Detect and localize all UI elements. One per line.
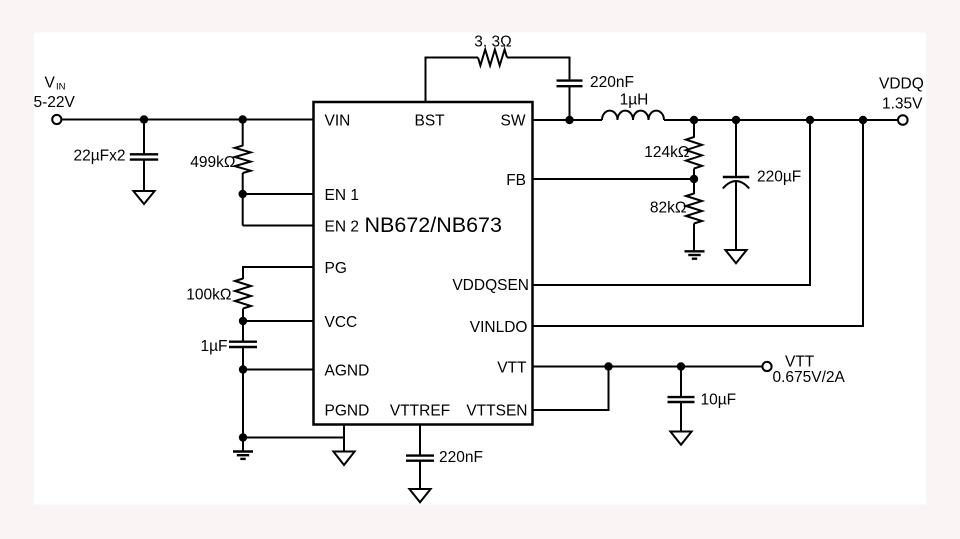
wire VTTSEN loop xyxy=(533,367,609,411)
wire VTTREF cap to ground xyxy=(419,461,421,489)
wire VCC to C-vcc xyxy=(242,321,244,342)
wire FB xyxy=(533,178,695,180)
svg-text:220nF: 220nF xyxy=(439,449,483,466)
junction dot VIN/R-EN xyxy=(239,115,247,123)
wire VCC xyxy=(243,320,314,322)
svg-text:499kΩ: 499kΩ xyxy=(190,154,235,171)
wire BST cap to SW xyxy=(569,86,571,120)
resistor 3.3Ohm xyxy=(478,50,507,66)
svg-text:22µFx2: 22µFx2 xyxy=(73,148,125,165)
wire C-vtt stem xyxy=(680,367,682,398)
pin label SW xyxy=(501,113,526,130)
svg-text:AGND: AGND xyxy=(325,363,370,380)
junction dot rail/C-out xyxy=(732,116,740,124)
wire C-out to ground xyxy=(735,181,737,250)
pin label VDDQSEN xyxy=(452,277,529,294)
svg-text:EN 1: EN 1 xyxy=(325,187,359,204)
wire VDDQSEN xyxy=(533,120,811,285)
terminal VDDQ output xyxy=(898,115,908,125)
wire R124k bottom stem xyxy=(693,169,695,180)
svg-text:1.35V: 1.35V xyxy=(882,96,923,113)
wire VIN rail xyxy=(61,119,313,121)
wire VDDQ rail xyxy=(664,119,898,121)
label 3.3Ohm xyxy=(474,34,511,51)
resistor 82kOhm xyxy=(686,194,702,224)
wire R-EN top stem xyxy=(242,120,244,147)
svg-text:VDDQ: VDDQ xyxy=(879,76,924,93)
wire R82k top stem xyxy=(693,179,695,194)
capacitor 22uFx2 xyxy=(130,154,158,159)
svg-text:124kΩ: 124kΩ xyxy=(644,144,689,161)
pin label EN 2 xyxy=(325,219,359,236)
wire C-out stem xyxy=(735,120,737,177)
pin label VCC xyxy=(325,314,358,331)
resistor 499kOhm xyxy=(235,146,251,173)
svg-text:1µH: 1µH xyxy=(620,92,649,109)
junction dot ground node xyxy=(239,433,247,441)
wire VINLDO xyxy=(533,120,864,326)
label 5-22V xyxy=(34,94,76,111)
svg-text:SW: SW xyxy=(501,113,526,130)
label 220nF (BST) xyxy=(590,74,634,91)
svg-text:220nF: 220nF xyxy=(590,74,634,91)
capacitor 220nF (BST) xyxy=(557,81,583,87)
ground (triangle) C-out xyxy=(725,250,746,263)
label 82kOhm xyxy=(650,200,687,217)
ground (triangle) C-vtt xyxy=(670,432,691,445)
junction dot VIN/C-in xyxy=(140,115,148,123)
IC U1 label NB672/NB673 xyxy=(365,213,502,237)
pin label VTT xyxy=(497,360,527,377)
junction dot VTT/C-vtt xyxy=(677,362,685,370)
wire BST resistor to cap xyxy=(507,58,570,81)
svg-text:VTTREF: VTTREF xyxy=(390,403,450,420)
wire EN1 to EN2 xyxy=(242,194,244,226)
pin label VINLDO xyxy=(470,319,528,336)
svg-text:3. 3Ω: 3. 3Ω xyxy=(474,34,511,51)
label 220nF (VTTREF) xyxy=(439,449,483,466)
wire AGND xyxy=(243,369,314,371)
pin label VTTREF xyxy=(390,403,450,420)
svg-text:5-22V: 5-22V xyxy=(34,94,76,111)
label 22uFx2 xyxy=(73,148,125,165)
inductor 1uH xyxy=(602,111,664,120)
svg-text:NB672/NB673: NB672/NB673 xyxy=(365,213,502,237)
svg-text:VTT: VTT xyxy=(497,360,527,377)
svg-text:V: V xyxy=(45,75,56,92)
junction dot rail/VDDQSEN xyxy=(806,116,814,124)
wire SW to inductor xyxy=(533,119,603,121)
junction dot EN1 xyxy=(239,190,247,198)
wire VTT rail xyxy=(533,366,763,368)
svg-text:PG: PG xyxy=(325,260,347,277)
svg-text:VDDQSEN: VDDQSEN xyxy=(452,277,529,294)
label 1.35V xyxy=(882,96,923,113)
junction dot rail/VINLDO xyxy=(859,116,867,124)
svg-text:100kΩ: 100kΩ xyxy=(186,287,231,304)
wire PG xyxy=(243,267,314,279)
wire R-EN bottom stem xyxy=(242,173,244,194)
pin label VTTSEN xyxy=(466,403,527,420)
svg-text:EN 2: EN 2 xyxy=(325,219,359,236)
label 124kOhm xyxy=(644,144,689,161)
pin label BST xyxy=(415,113,446,130)
wire ground node to PGND stub xyxy=(243,437,344,439)
terminal VIN input xyxy=(52,115,61,124)
pin label AGND xyxy=(325,363,370,380)
resistor 124kOhm xyxy=(686,137,702,169)
IC U1 NB672/NB673 body xyxy=(314,102,533,425)
svg-text:1µF: 1µF xyxy=(200,338,227,355)
wire BST riser xyxy=(426,58,479,103)
label 10uF xyxy=(701,392,737,409)
label 100kOhm xyxy=(186,287,231,304)
ground (bars) AGND xyxy=(233,452,253,459)
label 1uH xyxy=(620,92,649,109)
wire AGND down to ground node xyxy=(242,370,244,438)
wire R124k top stem xyxy=(693,120,695,138)
svg-text:IN: IN xyxy=(56,82,66,93)
svg-text:220µF: 220µF xyxy=(757,169,801,186)
resistor 100kOhm xyxy=(235,279,251,309)
capacitor 220uF (polarized) xyxy=(723,177,749,189)
ground (triangle) VTTREF xyxy=(409,489,430,502)
junction dot VTT/VTTSEN xyxy=(604,362,612,370)
wire C-in to ground xyxy=(143,160,145,191)
label 1uF xyxy=(200,338,227,355)
label 220uF xyxy=(757,169,801,186)
wire ground node stem xyxy=(242,438,244,452)
terminal VTT output xyxy=(762,362,771,371)
ground (bars) FB divider xyxy=(685,251,705,258)
wire R82k to ground xyxy=(693,224,695,252)
label VDDQ xyxy=(879,76,924,93)
svg-text:VTTSEN: VTTSEN xyxy=(466,403,527,420)
junction dot VCC xyxy=(239,317,247,325)
junction dot SW/BST-cap xyxy=(565,116,573,124)
svg-text:VTT: VTT xyxy=(785,354,815,371)
capacitor 10uF xyxy=(668,397,695,402)
capacitor 220nF (VTTREF) xyxy=(406,456,434,461)
wire EN1 xyxy=(243,193,314,195)
wire R-PG bottom stem xyxy=(242,309,244,322)
wire PGND stub xyxy=(343,425,345,452)
junction dot FB xyxy=(690,175,698,183)
wire C-vcc to AGND xyxy=(242,347,244,370)
junction dot rail/R124k xyxy=(690,116,698,124)
label 0.675V/2A xyxy=(773,369,846,386)
pin label PGND xyxy=(325,403,370,420)
svg-text:FB: FB xyxy=(506,172,526,189)
capacitor 1uF xyxy=(229,342,257,347)
pin label EN 1 xyxy=(325,187,359,204)
ground (triangle) C-in xyxy=(133,191,154,204)
svg-text:82kΩ: 82kΩ xyxy=(650,200,687,217)
wire C-in stem xyxy=(143,120,145,155)
pin label FB xyxy=(506,172,526,189)
ground (triangle) PGND xyxy=(333,452,354,466)
wire EN2 xyxy=(243,225,314,227)
svg-text:PGND: PGND xyxy=(325,403,370,420)
svg-text:VINLDO: VINLDO xyxy=(470,319,528,336)
svg-text:VIN: VIN xyxy=(325,113,351,130)
svg-text:BST: BST xyxy=(415,113,446,130)
label 499kOhm xyxy=(190,154,235,171)
svg-text:VCC: VCC xyxy=(325,314,358,331)
label VTT output xyxy=(785,354,815,371)
pin label PG xyxy=(325,260,347,277)
junction dot AGND xyxy=(239,365,247,373)
pin label VIN xyxy=(325,113,351,130)
wire C-vtt to ground xyxy=(680,402,682,432)
svg-text:0.675V/2A: 0.675V/2A xyxy=(773,369,846,386)
svg-text:10µF: 10µF xyxy=(701,392,737,409)
label VIN (V with IN subscript) xyxy=(45,75,66,93)
wire VTTREF stub xyxy=(419,425,421,456)
